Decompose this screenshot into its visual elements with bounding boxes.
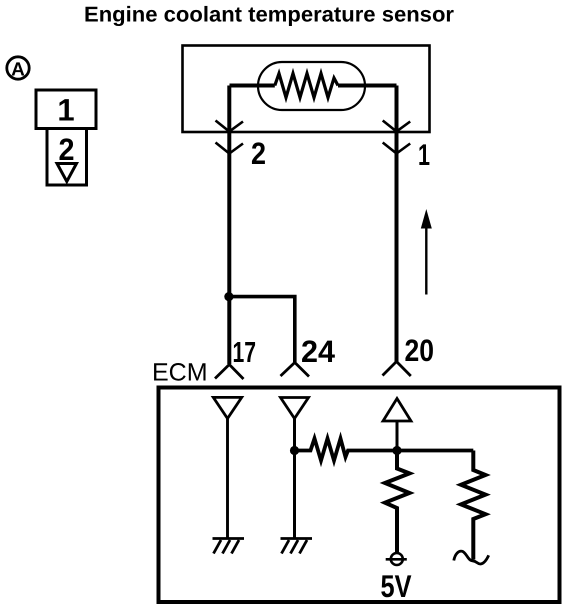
svg-text:17: 17 [233, 337, 257, 369]
svg-text:24: 24 [301, 334, 336, 369]
ECM pin 24 crow-foot [281, 363, 310, 377]
sensor thermistor capsule [258, 62, 365, 110]
ECM pin 20 crow-foot [383, 362, 411, 377]
thermistor resistor element [230, 84, 275, 88]
connector chevrons on left wire [216, 121, 244, 154]
wire: sensor pin 1 down [395, 86, 399, 363]
svg-text:2: 2 [59, 132, 75, 167]
svg-text:1: 1 [57, 93, 74, 128]
junction dot [224, 292, 233, 301]
svg-text:5V: 5V [381, 568, 412, 604]
current-direction arrow [425, 226, 427, 295]
junction dot on pin20 line [392, 446, 401, 455]
svg-text:Engine coolant temperature sen: Engine coolant temperature sensor [84, 3, 455, 27]
connector label A (circled) [7, 57, 29, 79]
ECM pin 24 buffer triangle [281, 398, 309, 419]
ECM pin 17 crow-foot [215, 365, 244, 380]
connector pin box 1 [36, 90, 96, 129]
sensor outline box [183, 46, 430, 133]
ground pin17 [213, 539, 245, 554]
connector pin box 2 [47, 129, 87, 186]
ground pin24 [281, 539, 313, 554]
svg-text:20: 20 [405, 333, 435, 368]
wire: branch to pin 24 [229, 297, 295, 362]
svg-text:2: 2 [251, 136, 266, 171]
svg-text:ECM: ECM [152, 359, 208, 387]
ECM pin 20 input triangle [383, 399, 411, 422]
junction dot on pin24 line [290, 446, 299, 455]
wire pin17 to ground [226, 419, 229, 539]
5V supply terminal [391, 553, 403, 565]
connector chevrons on right wire [383, 121, 411, 154]
wire pin20 to bus [396, 421, 399, 451]
wire: sensor pin 2 down [227, 86, 231, 365]
wire pin24 to ground [293, 419, 296, 539]
resistor to 5V (vertical) [385, 451, 410, 553]
second resistor (vertical, right) [461, 451, 486, 560]
continuation squiggle [454, 551, 489, 564]
svg-text:A: A [11, 60, 25, 81]
ECM box [159, 388, 560, 603]
svg-text:1: 1 [418, 139, 430, 172]
ECM pin 17 buffer triangle [213, 397, 241, 418]
connector keying triangle [57, 164, 77, 182]
pull-up resistor (horizontal) [295, 439, 474, 461]
